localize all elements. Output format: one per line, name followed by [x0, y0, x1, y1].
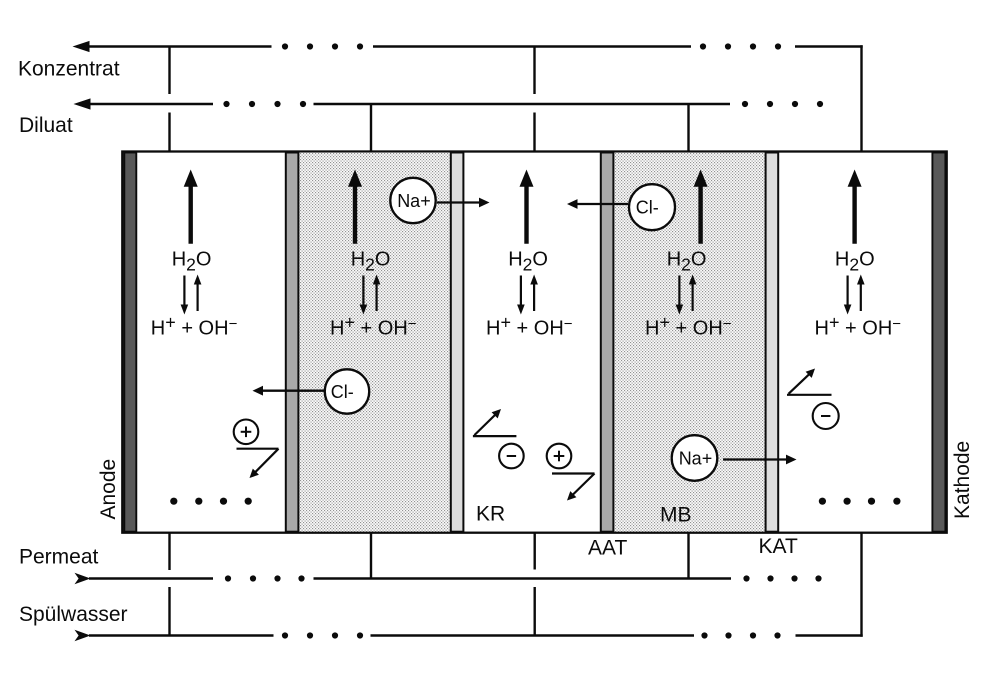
equilibrium arrows C2 concentrate compartment	[362, 276, 364, 307]
membrane M1 (anion, dark gray)	[286, 153, 299, 532]
svg-text:KR: KR	[476, 503, 505, 526]
svg-text:Spülwasser: Spülwasser	[19, 603, 128, 626]
membrane M2 (cation, light gray)	[451, 153, 464, 532]
charge + circle KR	[547, 444, 572, 469]
svg-text:H+ + OH−: H+ + OH−	[151, 312, 238, 339]
wire drop C1 to Spuelwasser (crosses Permeat)	[168, 533, 170, 570]
cathode electrode bar	[932, 153, 945, 532]
wire right riser Konzentrat to cell top (cathode compartment)	[860, 45, 862, 151]
svg-text:H+ + OH−: H+ + OH−	[815, 312, 902, 339]
stippled compartment C4 (MB)	[614, 153, 765, 532]
cell stack outline	[122, 152, 946, 533]
equilibrium arrows C1 anode compartment	[183, 276, 185, 307]
svg-text:MB: MB	[660, 504, 692, 527]
arrow Na+ through membrane M2 into KR	[437, 201, 482, 203]
bold up arrow C1 anode compartment	[188, 184, 192, 244]
anode electrode bar	[124, 153, 136, 532]
membrane M4 KAT (cation, light gray)	[766, 153, 779, 532]
svg-text:Konzentrat: Konzentrat	[18, 58, 120, 81]
wire riser C2 to Diluat	[370, 104, 372, 152]
arrow Cl- through membrane M1 into C1	[261, 390, 325, 392]
migration arrow down-left C1	[237, 448, 279, 450]
wire Permeat inlet line	[75, 573, 91, 585]
charge - circle C5	[813, 403, 839, 429]
migration arrow down-left KR	[552, 472, 595, 474]
ion Cl- circle C2 lower	[325, 369, 369, 413]
charge - circle KR	[499, 444, 524, 469]
svg-text:H+ + OH−: H+ + OH−	[486, 312, 573, 339]
svg-text:AAT: AAT	[588, 537, 627, 560]
bold up arrow C4 MB compartment	[698, 184, 702, 244]
wire right drop cathode compartment to Spuelwasser	[860, 533, 862, 637]
svg-text:KAT: KAT	[759, 535, 798, 558]
dots row cathode compartment	[819, 498, 826, 505]
wire Diluat outlet line	[74, 98, 91, 109]
membrane M3 AAT (anion, dark gray)	[601, 153, 614, 532]
svg-text:Na+: Na+	[397, 191, 431, 211]
svg-text:Cl-: Cl-	[636, 198, 659, 218]
migration arrow up-right KR	[473, 435, 517, 437]
wire riser C1 to Konzentrat (crosses Diluat)	[168, 47, 170, 95]
bold up arrow C2 concentrate compartment	[353, 184, 357, 244]
svg-text:Na+: Na+	[679, 448, 713, 468]
equilibrium arrows C5 cathode compartment	[846, 276, 848, 307]
svg-text:Diluat: Diluat	[19, 114, 73, 137]
arrow Na+ through membrane M4 into C5	[723, 458, 789, 460]
wire Konzentrat outlet line	[73, 41, 90, 52]
arrow Cl- through membrane M3 into KR	[575, 203, 628, 205]
wire riser C3 to Konzentrat (crosses Diluat)	[533, 47, 535, 95]
wire drop C2 to Permeat	[370, 533, 372, 579]
svg-text:Permeat: Permeat	[19, 546, 99, 569]
dots row anode compartment	[170, 498, 177, 505]
ion Cl- circle C4 top	[629, 184, 675, 230]
bold up arrow C5 cathode compartment	[852, 184, 856, 244]
ion Na+ circle C4 lower	[672, 435, 718, 481]
wire Spuelwasser inlet line	[75, 630, 91, 642]
svg-text:Anode: Anode	[97, 459, 120, 520]
stippled compartment C2	[299, 153, 450, 532]
charge + circle C1	[234, 420, 259, 445]
wire riser C4 to Diluat	[687, 104, 689, 152]
equilibrium arrows C4 MB compartment	[678, 276, 680, 307]
bold up arrow C3 KR compartment	[524, 184, 528, 244]
svg-text:H+ + OH−: H+ + OH−	[645, 312, 732, 339]
svg-text:Cl-: Cl-	[331, 382, 354, 402]
ion Na+ circle C2 top	[390, 178, 435, 223]
svg-text:Kathode: Kathode	[951, 441, 974, 519]
svg-text:H+ + OH−: H+ + OH−	[330, 312, 417, 339]
wire drop C4 to Permeat	[687, 533, 689, 579]
migration arrow up-right C5	[787, 394, 832, 396]
wire drop C3 to Spuelwasser (crosses Permeat)	[534, 533, 536, 570]
equilibrium arrows C3 KR compartment	[520, 276, 522, 307]
